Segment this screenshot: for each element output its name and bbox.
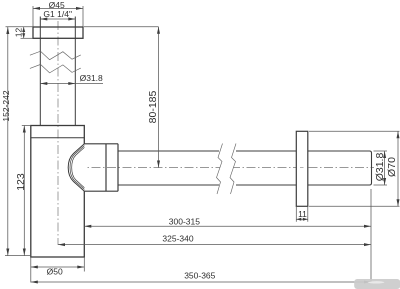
dim 300-315 line	[84, 225, 371, 227]
svg-text:Ø31.8: Ø31.8	[80, 73, 103, 83]
dia45 dimension line	[33, 7, 83, 9]
svg-text:Ø70: Ø70	[386, 157, 398, 177]
dia70 extension lines	[309, 131, 400, 206]
outlet pipe left segment	[118, 151, 219, 185]
elbow cone inner line 2	[72, 147, 85, 187]
svg-text:123: 123	[15, 173, 27, 191]
bottle cap divider	[31, 137, 85, 139]
watermark	[354, 279, 400, 289]
dim 152-242 bottom extension line	[5, 255, 31, 257]
elbow body	[84, 144, 106, 191]
break zigzag lower	[30, 64, 81, 73]
svg-text:80-185: 80-185	[147, 90, 159, 123]
outlet dia31.8 arrows	[383, 151, 386, 185]
dim 80-185 extension line	[84, 26, 159, 28]
dia50 arrows	[31, 266, 85, 269]
centerline dot inside wall flange	[300, 167, 304, 169]
dim 350-365 line	[31, 281, 371, 283]
dia50 dimension line	[31, 266, 85, 268]
inlet thread tube	[40, 17, 75, 126]
break zigzag left	[217, 144, 223, 195]
G1 1/4 dimension line	[40, 18, 75, 20]
svg-text:G1 1/4": G1 1/4"	[43, 9, 72, 19]
dia70 arrows	[397, 131, 400, 206]
break zigzag upper	[30, 51, 81, 60]
dia45 extension lines	[33, 6, 83, 27]
dim 11 arrows	[296, 218, 308, 221]
svg-text:300-315: 300-315	[169, 217, 200, 227]
dia70 dimension line	[397, 131, 399, 206]
dia31.8 left arrows	[40, 82, 75, 85]
elbow cone (covers bottle edge)	[68, 144, 85, 191]
dim 123 arrows	[23, 126, 26, 256]
dim 152-242 top extension line	[6, 26, 34, 28]
vertical centerline of trap	[57, 21, 59, 245]
G1 1/4 arrows	[40, 18, 75, 21]
svg-text:325-340: 325-340	[162, 234, 193, 244]
svg-text:350-365: 350-365	[184, 271, 215, 281]
wall flange	[296, 131, 308, 206]
elbow cone inner line 1	[70, 146, 84, 190]
dim 11 line	[296, 218, 308, 220]
dim 123 extension line	[22, 125, 31, 127]
inlet flange rect	[33, 27, 83, 38]
dia31.8 left dimension line	[40, 83, 103, 85]
dim 152-242 line	[7, 27, 9, 256]
svg-text:152-242: 152-242	[1, 90, 11, 121]
break gap white mask (outlet pipe)	[217, 144, 237, 195]
outlet dia31.8 extension lines	[374, 151, 388, 185]
outlet pipe right segment with end	[236, 151, 372, 185]
break zigzag right	[230, 144, 236, 195]
outlet dia31.8 dimension line	[384, 151, 386, 185]
dim 152-242 arrows	[6, 27, 9, 256]
dim 80-185 arrows	[157, 27, 160, 168]
dim 300-315 arrows	[84, 225, 371, 228]
dim 12 extension line bottom	[21, 37, 34, 39]
elbow nut	[106, 144, 118, 191]
dim 123 line	[23, 126, 25, 256]
dim 325-340 arrows	[58, 243, 371, 246]
dim 11 extension lines	[296, 206, 308, 222]
dim 12 arrows	[22, 27, 25, 38]
svg-text:12: 12	[13, 28, 23, 38]
dia50 extension lines	[31, 257, 85, 283]
right vertical shared extension line	[370, 189, 372, 282]
svg-text:Ø50: Ø50	[47, 267, 63, 277]
dim 12 line	[23, 27, 25, 38]
dim 325-340 line	[58, 244, 371, 246]
dim 350-365 arrows	[31, 281, 371, 284]
svg-text:11: 11	[298, 209, 307, 219]
horizontal centerline of outlet pipe	[76, 167, 374, 169]
bottle body	[31, 126, 85, 258]
dim 80-185 line	[158, 27, 160, 168]
dia45 arrows	[33, 7, 83, 10]
svg-text:Ø31.8: Ø31.8	[374, 153, 386, 182]
